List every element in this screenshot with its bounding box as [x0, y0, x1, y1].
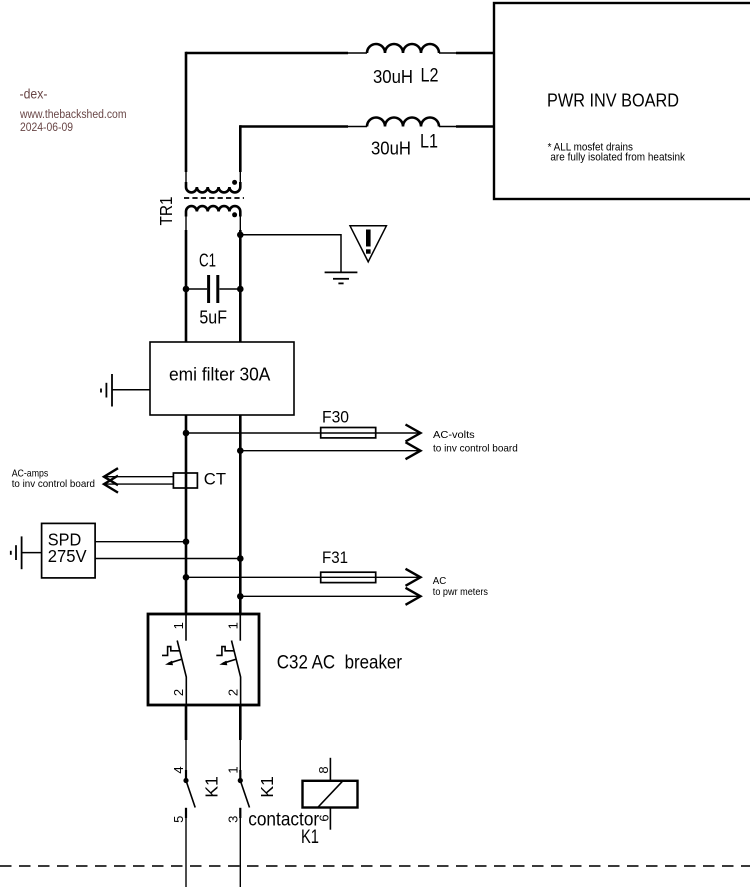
wire L2 lead left [348, 52, 367, 54]
arrow chevron AC-volts line2 [406, 442, 421, 459]
svg-text:AC-volts: AC-volts [433, 429, 475, 441]
wire lead from secondary left [185, 214, 187, 230]
wire right below breaker [239, 705, 242, 740]
emi filter box [150, 342, 294, 415]
PWR INV BOARD box [494, 3, 750, 199]
contactor coil K1 [303, 758, 358, 830]
wire lead into transformer primary right [239, 172, 241, 183]
svg-text:2: 2 [225, 689, 240, 696]
node SPD left bus [183, 538, 190, 545]
wire lead from secondary right [239, 214, 241, 230]
svg-text:L1: L1 [420, 132, 438, 153]
svg-text:are fully isolated from heatsi: are fully isolated from heatsink [550, 151, 685, 163]
node C1 right [237, 286, 244, 293]
wire right vertical from L1 corner to transformer [239, 125, 242, 172]
svg-text:K1: K1 [257, 776, 277, 798]
svg-text:PWR INV BOARD: PWR INV BOARD [547, 90, 679, 111]
svg-text:CT: CT [204, 470, 226, 489]
svg-text:TR1: TR1 [156, 197, 176, 226]
wire left vertical from top corner to transformer [185, 52, 188, 172]
emi filter ground symbol [101, 374, 150, 407]
SPD box [42, 523, 96, 578]
warning triangle [350, 226, 386, 262]
ground earth symbol [325, 272, 358, 283]
wire F31 line 1 [186, 576, 420, 578]
node SPD right bus [237, 555, 244, 562]
wire right thin to contact [239, 740, 241, 781]
svg-text:C1: C1 [199, 251, 216, 271]
svg-text:30uH: 30uH [373, 67, 413, 87]
svg-text:C32 AC breaker: C32 AC breaker [277, 653, 403, 674]
arrow chevron AC-amps line1 [104, 468, 118, 485]
wire F30 line 2 [240, 450, 420, 452]
svg-text:5uF: 5uF [199, 307, 227, 328]
wire right vertical to emi filter [239, 230, 242, 342]
svg-text:2024-06-09: 2024-06-09 [20, 122, 73, 134]
wire left below breaker [185, 705, 188, 740]
arrow chevron AC-amps line2 [104, 476, 118, 493]
svg-text:1: 1 [225, 622, 240, 629]
svg-text:4: 4 [171, 766, 186, 773]
wire L2 lead right [439, 52, 456, 54]
dashed separator line [0, 865, 750, 867]
wire to chassis ground [240, 235, 341, 272]
current transformer CT [173, 470, 226, 489]
svg-text:www.thebackshed.com: www.thebackshed.com [19, 109, 126, 121]
svg-text:2: 2 [171, 689, 186, 696]
svg-text:5: 5 [171, 816, 186, 823]
svg-text:to inv control board: to inv control board [433, 443, 518, 455]
transformer TR1 [156, 180, 244, 226]
SPD ground symbol [11, 536, 42, 569]
svg-text:emi filter 30A: emi filter 30A [169, 364, 271, 385]
wire SPD to left bus [95, 541, 186, 543]
svg-text:F30: F30 [322, 407, 349, 426]
node F30 tap left [183, 430, 190, 437]
breaker pole 2 [216, 614, 240, 705]
breaker box C32 [148, 614, 403, 705]
wire L1 lead right [439, 126, 456, 128]
svg-text:275V: 275V [48, 546, 87, 566]
svg-text:K1: K1 [202, 776, 222, 798]
svg-text:8: 8 [316, 766, 331, 773]
svg-text:30uH: 30uH [371, 139, 411, 159]
wire CT line 2 [105, 483, 174, 485]
svg-text:to inv control board: to inv control board [12, 478, 95, 490]
wire L2 to board [456, 52, 494, 55]
node C1 left [183, 286, 190, 293]
breaker pole 1 [162, 614, 186, 705]
wire L1 lead left [348, 126, 367, 128]
inductor L2 [367, 44, 439, 87]
wire top L2 left segment [186, 52, 348, 55]
wire left vertical to emi filter [185, 230, 188, 342]
contact K1 pole 1 [171, 766, 222, 887]
svg-text:F31: F31 [322, 548, 348, 567]
wire SPD to right bus [95, 558, 240, 560]
svg-text:1: 1 [171, 622, 186, 629]
arrow chevron AC line2 [406, 588, 421, 605]
inductor L1 [367, 118, 439, 159]
contact K1 pole 2 [225, 766, 276, 887]
arrow chevron AC-volts line1 [406, 425, 421, 442]
node F31 tap left [183, 574, 190, 581]
node junction secondary right to ground [237, 232, 244, 239]
wire top L1 left segment [240, 125, 348, 128]
fuse F30 [321, 407, 376, 438]
wire left vertical below emi filter [185, 415, 188, 614]
svg-text:-dex-: -dex- [20, 86, 48, 102]
wire lead into transformer primary left [185, 172, 187, 183]
wire right vertical below emi filter [239, 415, 242, 614]
wire L1 to board [456, 125, 494, 128]
wire F31 line 2 [240, 595, 420, 597]
capacitor C1 [186, 251, 240, 328]
node F31 tap right [237, 593, 244, 600]
arrow chevron AC line1 [406, 569, 421, 586]
svg-text:K1: K1 [301, 827, 319, 848]
wire F30 line 1 [186, 432, 420, 434]
svg-text:L2: L2 [421, 66, 439, 87]
svg-text:3: 3 [225, 816, 240, 823]
node F30 tap right [237, 447, 244, 454]
svg-text:to pwr meters: to pwr meters [433, 586, 488, 598]
wire CT line 1 [105, 476, 174, 478]
wire left thin to contact [185, 740, 187, 781]
svg-text:1: 1 [225, 766, 240, 773]
fuse F31 [321, 548, 376, 582]
